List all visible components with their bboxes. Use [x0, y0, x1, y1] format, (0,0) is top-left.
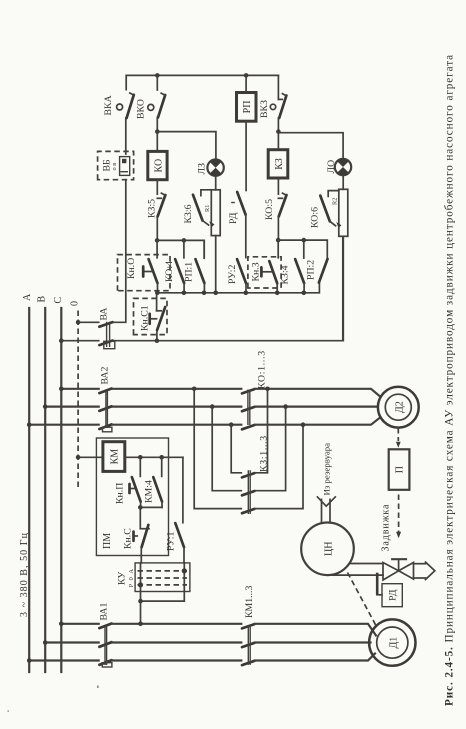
KO:1..3 linking bar	[248, 390, 250, 426]
wire A VA2 to KO:1	[112, 424, 241, 426]
svg-text:ЛО: ЛО	[326, 160, 337, 174]
inlet arrow	[317, 497, 335, 506]
KZ:1..3 linking bar	[248, 470, 250, 514]
label 3~380V 50Hz	[19, 532, 30, 617]
wire phase A drop to VA1	[29, 659, 99, 661]
wire KZ riser2	[255, 407, 286, 491]
relay contact RU:2	[237, 259, 246, 293]
contactor KZ:3 blade	[242, 473, 255, 477]
pressure relay contact RD blade	[231, 192, 245, 215]
breaker VA linking bar	[104, 322, 115, 349]
svg-text:ВКА: ВКА	[103, 95, 114, 115]
svg-text:РП: РП	[242, 101, 253, 114]
svg-text:ВКЗ: ВКЗ	[259, 100, 270, 118]
label KM:4	[144, 480, 155, 503]
junction dot 0-rail KM tap	[76, 455, 81, 460]
label Kn.C1	[140, 305, 151, 331]
wire KZ crossover bottom	[231, 425, 241, 473]
label VA	[99, 308, 110, 321]
contactor contact KM3 blade	[242, 624, 255, 628]
wire 0-rail to KM coil	[78, 456, 103, 458]
pump inlet pipe	[322, 499, 331, 522]
svg-text:РП:2: РП:2	[306, 260, 317, 280]
wire C KO to motor D2	[255, 389, 380, 396]
svg-text:Рис. 2.4-5. Принципиальная эле: Рис. 2.4-5. Принципиальная электрическая…	[444, 54, 456, 706]
svg-text:РУ:1: РУ:1	[166, 532, 177, 551]
mech link dashes motor D2 to P	[396, 428, 401, 448]
wire VKO to node	[156, 118, 158, 132]
interlock contact KZ:5 blade	[158, 193, 166, 216]
wire A VA1 to KM1	[112, 659, 241, 661]
label VA2	[100, 367, 111, 385]
svg-text:А: А	[128, 569, 135, 574]
limit switch VKO roller circle	[148, 104, 154, 110]
KU row2 wire	[183, 563, 185, 592]
junction dot left rail RP:1	[202, 290, 207, 295]
svg-text:Кн.О: Кн.О	[126, 258, 137, 279]
contactor KZ:1 blade	[242, 509, 255, 513]
svg-text:ВА2: ВА2	[100, 367, 111, 385]
wire LO to R2	[342, 175, 344, 189]
breaker VA pole2 blade	[99, 341, 112, 346]
stop button Kn.C contact	[134, 507, 150, 563]
label A	[22, 293, 33, 301]
wire 0-rail to VA pole1	[78, 321, 99, 323]
circuit breaker VA1 pole B blade	[99, 642, 111, 647]
svg-text:КЗ:4: КЗ:4	[280, 265, 291, 284]
wire VA pole2 down (left control rail)	[113, 236, 343, 340]
motor D2 (Д2)	[378, 387, 419, 428]
resistor R1	[211, 190, 220, 236]
junction dot KM vert KnP	[138, 455, 143, 460]
junction dot KU join	[138, 599, 143, 604]
wire node down to LZ rung	[157, 132, 216, 160]
label RP:2	[306, 260, 317, 280]
circuit breaker VA2 pole A blade	[99, 424, 111, 429]
wire RD to RU:2	[245, 215, 247, 258]
svg-text:ЛЗ: ЛЗ	[197, 163, 208, 175]
label RU:1	[166, 532, 177, 551]
label PM	[102, 533, 113, 549]
label KM1...3	[244, 586, 255, 618]
circuit breaker VA1 pole C blade	[99, 624, 111, 629]
breaker VA1 linking bar	[102, 626, 112, 667]
wire VKZ to node	[278, 75, 282, 131]
pressure relay RD box	[382, 584, 402, 607]
phase rail B	[44, 308, 46, 672]
svg-text:КО:1...3: КО:1...3	[257, 350, 268, 389]
wire A KO to motor D2	[255, 418, 380, 425]
label KO:6	[310, 207, 321, 228]
wire phase C drop to VA1	[61, 623, 98, 625]
label KZ:4	[280, 265, 291, 284]
label KU	[117, 572, 128, 585]
svg-text:0: 0	[70, 301, 81, 306]
neutral rail 0 (dashed)	[77, 308, 79, 487]
wire C-rail to VA pole2	[61, 340, 98, 342]
wire phase C drop to VA2	[61, 388, 98, 390]
svg-text:ВА1: ВА1	[99, 603, 110, 621]
control subrail 2	[278, 240, 327, 259]
junction dot right rail RP	[244, 73, 249, 78]
junction dot left rail KO:4	[182, 290, 187, 295]
label RU:2	[227, 265, 238, 284]
pump outlet pipe	[330, 564, 383, 576]
svg-text:РД: РД	[388, 589, 399, 601]
starter PM boundary box	[96, 438, 168, 556]
svg-text:П: П	[395, 466, 406, 473]
wire VA pole1 down and to top rung	[113, 180, 126, 323]
wire KZ crossover mid	[212, 407, 241, 491]
junction dot riser3	[265, 386, 270, 391]
junction dot rail A corner	[27, 658, 32, 663]
contactor KO:3 blade	[242, 389, 255, 393]
wire A KM to motor D1	[255, 654, 375, 661]
junction dot riser2	[283, 404, 288, 409]
control key KU box	[135, 563, 190, 592]
svg-text:КО:4: КО:4	[164, 261, 175, 282]
wire rail to RP box	[245, 75, 247, 92]
breaker VA2 linking bar	[103, 392, 112, 432]
label Kn.Z	[250, 262, 261, 281]
shunt contact KZ:6	[193, 190, 215, 227]
junction dot rail C corner	[59, 622, 64, 627]
label VA1	[99, 603, 110, 621]
svg-text:ЦН: ЦН	[324, 542, 335, 556]
wire phase B drop to VA2	[45, 406, 98, 408]
auxiliary contact KZ:4	[295, 240, 304, 293]
wire RP box to RD	[245, 121, 247, 190]
label KZ:6	[183, 204, 194, 223]
svg-text:R1: R1	[204, 205, 211, 212]
level relay contact RU:1	[175, 457, 184, 563]
pump CN (ЦН)	[301, 523, 354, 576]
wire KO box to KZ:5	[157, 180, 161, 199]
contactor coil KZ box	[268, 150, 288, 178]
svg-text:КЗ: КЗ	[274, 158, 285, 170]
contactor KZ:2 blade	[242, 491, 255, 495]
junction dot B line tap	[210, 404, 215, 409]
label VB	[102, 159, 113, 172]
control subrail 1	[157, 240, 204, 258]
tiny label ov	[111, 163, 118, 171]
svg-text:Из резервуара: Из резервуара	[322, 443, 332, 496]
label Zadvizhka	[381, 504, 392, 552]
svg-text:С: С	[53, 297, 64, 304]
svg-text:ВА: ВА	[99, 308, 110, 321]
svg-text:Д2: Д2	[394, 401, 405, 413]
resistor R2	[339, 189, 348, 236]
svg-text:0: 0	[128, 577, 135, 580]
label C	[53, 297, 64, 304]
svg-text:Кн.С: Кн.С	[123, 528, 134, 549]
label VKZ	[259, 100, 270, 118]
wire B VA2 to KO:2	[112, 406, 241, 408]
junction dot node VKZ/LO	[276, 129, 281, 134]
svg-text:КО: КО	[153, 159, 164, 173]
wire R1 to left rail	[215, 236, 217, 293]
svg-text:В: В	[37, 296, 48, 303]
circuit breaker VA1 (ВА1) pole A blade	[99, 660, 111, 665]
circuit breaker VA2 pole B blade	[99, 406, 111, 411]
svg-text:КМ:4: КМ:4	[144, 480, 155, 503]
junction dot VA pole2 rail KnC1	[155, 338, 160, 343]
label KO:4	[164, 261, 175, 282]
wire KZ:5 to subrail1	[156, 217, 158, 241]
relay contact RP:1	[196, 240, 205, 292]
label Kn.C	[123, 528, 134, 549]
wire rail to VKO	[156, 75, 158, 90]
limit switch VKA blade	[127, 93, 134, 118]
KU row1 wire	[140, 563, 142, 592]
svg-text:КМ: КМ	[110, 449, 121, 465]
KU left joining wires	[141, 592, 185, 602]
label RP:1	[184, 262, 195, 282]
junction dot subrail2 KZ:4	[302, 238, 307, 243]
wire phase B drop to VA1	[45, 641, 98, 643]
svg-text:Д1: Д1	[388, 637, 399, 649]
wire LZ to R1	[215, 176, 217, 190]
signal lamp LO	[335, 159, 351, 175]
reducer P box	[389, 449, 410, 490]
junction dot left rail Kn.Z	[275, 290, 280, 295]
label KO:5	[264, 199, 275, 220]
svg-text:КУ: КУ	[117, 572, 128, 585]
KU position dashed lines	[138, 571, 188, 585]
limit switch VKZ blade	[279, 94, 286, 118]
wire R2 to left control rail	[342, 236, 344, 340]
valve stem and handle	[392, 559, 406, 571]
auxiliary contact KO:4	[175, 240, 184, 292]
junction dot PM subrail	[138, 505, 143, 510]
junction dot 0-rail VA tap	[76, 320, 81, 325]
svg-text:А: А	[22, 293, 33, 301]
wire phase A drop to VA2	[29, 424, 99, 426]
junction dot left rail Kn.O	[155, 290, 160, 295]
push button Kn.O dashed box	[118, 255, 171, 291]
label Kn.O	[126, 258, 137, 279]
wire KZ box to KO:5	[278, 178, 282, 198]
shunt contact KO:6	[320, 191, 341, 228]
wire C VA1 to KM3	[112, 623, 241, 625]
svg-text:РУ:2: РУ:2	[227, 265, 238, 284]
RD impulse line	[377, 573, 382, 595]
wire B KO to motor D2	[255, 406, 378, 408]
KU position labels R 0 A	[128, 569, 135, 588]
junction dot C-rail VA tap	[59, 338, 64, 343]
label Kn.P	[115, 483, 126, 504]
push button Kn.P contact	[130, 457, 141, 507]
label LZ	[197, 163, 208, 175]
figure caption	[444, 54, 456, 706]
contactor contact KM1 blade	[242, 661, 255, 665]
label VKA	[103, 95, 114, 115]
svg-text:КМ1...3: КМ1...3	[244, 586, 255, 618]
mech link dashes pump to D1	[348, 573, 378, 628]
label KZ:5	[147, 199, 158, 218]
motor D1 (Д1)	[369, 619, 415, 665]
relay contact RP:2	[319, 259, 328, 283]
svg-text:КО:6: КО:6	[310, 207, 321, 228]
wire node VKZ down to LO rung	[278, 133, 343, 159]
push button Kn.C1 contact	[150, 293, 166, 341]
junction dot A rail	[27, 422, 32, 427]
junction dot rail B corner	[43, 640, 48, 645]
wire KO:5 to subrail2	[277, 217, 279, 241]
limit switch VKZ roller circle	[270, 104, 275, 109]
svg-text:КЗ:5: КЗ:5	[147, 199, 158, 218]
KU contact dot row1 pos R	[138, 582, 143, 587]
svg-text:КЗ:6: КЗ:6	[183, 204, 194, 223]
KU contact dot row2 pos A	[182, 568, 187, 573]
contactor KO:1 blade	[242, 425, 255, 429]
svg-text:Кн.З: Кн.З	[250, 262, 261, 281]
label R1	[204, 205, 211, 212]
junction dot A line tap	[229, 422, 234, 427]
svg-text:ВКО: ВКО	[136, 99, 147, 119]
junction dot node VKO/LZ	[155, 129, 160, 134]
wire KZ riser3	[255, 389, 268, 473]
phase rail A	[28, 308, 30, 672]
svg-text:Р: Р	[128, 583, 135, 587]
limit switch VKA roller circle	[117, 104, 123, 110]
junction dot right rail VKO	[155, 73, 160, 78]
svg-text:КО:5: КО:5	[264, 199, 275, 220]
label B	[37, 296, 48, 303]
junction dot left rail R1 rung	[213, 290, 218, 295]
junction dot C line KU tap	[138, 622, 143, 627]
label KZ:1...3	[259, 435, 270, 472]
svg-text:Кн.П: Кн.П	[115, 483, 126, 504]
scan speck	[8, 686, 99, 713]
wire KU to C line	[140, 601, 142, 624]
label 0	[70, 301, 81, 306]
KM1..3 linking bar	[248, 625, 250, 665]
right control rail	[126, 75, 278, 89]
wire node to KZ box	[277, 132, 279, 150]
junction dot subrail1 top	[155, 238, 160, 243]
wire top rung through VB	[125, 118, 127, 154]
junction dot subrail1 KO:4	[182, 238, 187, 243]
svg-text:Задвижка: Задвижка	[381, 504, 392, 552]
junction dot KM vert KM4	[159, 455, 164, 460]
VB solenoid rect	[120, 157, 130, 176]
wire KM box down	[125, 456, 183, 458]
wire C KM to motor D1	[255, 624, 376, 636]
contactor coil KM box	[103, 442, 125, 472]
phase rail C	[60, 308, 62, 672]
signal lamp LZ	[207, 159, 223, 175]
wire B KM to motor D1	[255, 641, 371, 643]
label LO	[326, 160, 337, 174]
push button Kn.Z contact	[261, 240, 278, 293]
junction dot C line tap	[192, 386, 197, 391]
label RD	[228, 212, 239, 224]
limit switch VKO blade	[158, 93, 165, 117]
svg-text:R2: R2	[332, 198, 339, 205]
contactor contact KM2 blade	[242, 643, 255, 647]
wire C VA2 to KO:3	[112, 388, 241, 390]
svg-text:РД: РД	[228, 212, 239, 224]
label R2	[332, 198, 339, 205]
push button Kn.O contact	[143, 240, 157, 292]
junction dot left rail KZ:4	[302, 290, 307, 295]
svg-text:ПМ: ПМ	[102, 533, 113, 549]
wire node to KO box	[156, 132, 158, 150]
left control rail	[157, 283, 319, 293]
svg-text:РП:1: РП:1	[184, 262, 195, 282]
valve outlet arrow	[414, 562, 435, 579]
relay coil RP box	[237, 93, 257, 122]
svg-text:о в: о в	[111, 163, 118, 171]
auxiliary contact KM:4	[153, 457, 162, 507]
label Iz rezervuara	[322, 443, 332, 496]
push button Kn.C1 dashed box	[134, 298, 168, 334]
label VKO	[136, 99, 147, 119]
junction dot B rail	[43, 404, 48, 409]
subrail PM left	[140, 506, 162, 508]
mech link dashes P to valve	[396, 495, 401, 539]
push button Kn.Z dashed box	[248, 257, 281, 288]
wire KZ riser1 to C line	[255, 425, 303, 509]
junction dot C rail	[59, 386, 64, 391]
contactor coil KO box	[148, 151, 167, 179]
wire KZ crossover top (C to riser)	[194, 389, 241, 509]
wire B VA1 to KM2	[112, 641, 241, 643]
contactor KO:2 blade	[242, 407, 255, 411]
breaker VA pole1 blade	[99, 322, 112, 327]
junction dot subrail2 top	[276, 238, 281, 243]
label KO:1...3	[257, 350, 268, 389]
junction dot left rail RU:2	[244, 290, 249, 295]
interlock contact KO:5 blade	[279, 193, 287, 216]
brake electromagnet VB dashed box	[98, 151, 134, 179]
valve (Задвижка) body	[383, 563, 414, 581]
junction dot riser1	[301, 422, 306, 427]
circuit breaker VA2 pole C blade	[99, 389, 111, 394]
